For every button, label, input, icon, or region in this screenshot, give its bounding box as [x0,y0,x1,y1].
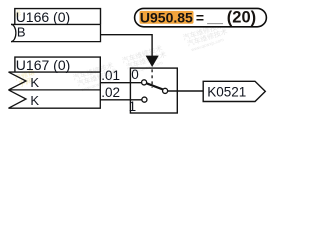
wire input 02 [100,99,142,101]
input connector B banner [11,24,101,41]
svg-text:K: K [30,75,39,90]
svg-text:U167 (0): U167 (0) [16,57,70,73]
watermark gray band [72,20,230,94]
dashed control line [151,69,153,88]
svg-text:.01: .01 [101,68,120,83]
svg-text:B: B [17,25,26,40]
block U166 title box [11,9,101,25]
contact circle output [163,88,168,93]
wire control vertical [151,34,153,56]
svg-text:=: = [196,9,204,25]
wire input 01 [100,82,141,84]
input connector K1 banner [9,72,101,90]
wire output [168,90,204,92]
output tag K0521 [203,81,265,101]
svg-text:U166 (0): U166 (0) [16,9,70,25]
arrowhead [146,56,159,67]
wire B horizontal [101,34,153,36]
watermark yellow marks [13,8,38,89]
svg-text:__: __ [206,9,223,25]
svg-text:1: 1 [129,99,137,114]
svg-text:.02: .02 [101,85,120,100]
svg-text:0: 0 [131,67,139,82]
switch arm [147,83,163,89]
contact circle input 0 [142,80,147,85]
parameter ellipse U950.85 [135,8,267,26]
block U167 title box [9,57,101,72]
svg-text:(20): (20) [227,9,256,27]
svg-text:U950.85: U950.85 [140,9,193,25]
svg-text:K0521: K0521 [207,85,246,100]
highlight U950.85 [140,11,194,24]
input connector K2 banner [9,90,101,108]
svg-text:K: K [30,93,39,108]
contact circle input 1 [142,97,147,102]
switch box [130,68,177,113]
